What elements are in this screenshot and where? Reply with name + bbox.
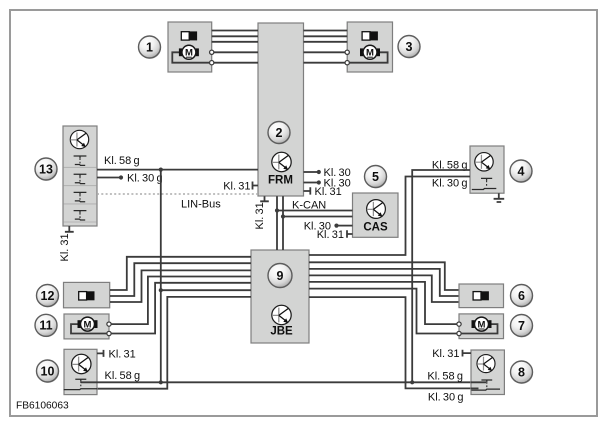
svg-text:JBE: JBE — [270, 326, 293, 338]
control unit FRM (footwell module) — [258, 23, 304, 196]
svg-text:7: 7 — [518, 319, 525, 333]
callout badge 2 — [268, 122, 291, 145]
wire component 12 pin 3 to JBE — [110, 270, 251, 302]
svg-text:4: 4 — [518, 164, 525, 178]
wire FRM to component 3 motor - — [304, 62, 348, 64]
svg-text:1: 1 — [146, 40, 153, 54]
control unit JBE (junction box electronics) — [251, 250, 309, 343]
junction Kl. 30 stub 2 end — [317, 180, 321, 184]
svg-text:2: 2 — [276, 126, 283, 140]
component 4 (lamp unit with control electronics) — [470, 146, 504, 193]
wire JBE to component 8 Kl. 30 g line — [309, 297, 471, 388]
svg-text:11: 11 — [39, 319, 52, 333]
junction Kl. 58 g tap to JBE — [159, 288, 163, 292]
wire component 1 to FRM pin 3 — [212, 41, 258, 43]
wire component 1 to FRM pin 2 — [212, 35, 258, 37]
connector pins component 3 — [345, 50, 349, 65]
wire LIN-Bus (dotted) component 13 to FRM — [97, 193, 258, 195]
svg-text:10: 10 — [41, 364, 55, 378]
svg-text:Kl. 30 g: Kl. 30 g — [432, 178, 468, 190]
svg-text:Kl. 58 g: Kl. 58 g — [105, 370, 141, 382]
junction Kl. 58 g rail tap right — [410, 380, 414, 384]
terminal Kl. 31 (component 8) — [463, 350, 472, 357]
wire motor loop in component 3 — [347, 52, 387, 62]
svg-text:8: 8 — [518, 365, 525, 379]
component 10 (lamp unit with control electronics) — [64, 349, 97, 394]
wire component 1 motor + to FRM — [212, 51, 258, 53]
motor M in component 3 — [360, 45, 380, 59]
wire JBE to component 7 motor + — [309, 282, 459, 324]
svg-text:5: 5 — [372, 170, 379, 184]
wire FRM to component 3 pin 2 — [304, 35, 348, 37]
wire motor loop in component 7 — [459, 324, 498, 333]
wire JBE to component 7 motor - — [309, 289, 459, 334]
wire K-CAN high to CAS — [277, 210, 353, 212]
component 8 (lamp unit with control electronics) — [471, 350, 504, 395]
callout badge 4 — [510, 160, 533, 183]
component 7 (motor unit) — [459, 314, 504, 339]
wire motor loop in component 1 — [172, 52, 211, 62]
svg-text:Kl. 31: Kl. 31 — [223, 181, 250, 193]
callout badge 6 — [511, 285, 534, 308]
wire Kl. 30 stub FRM right 2 — [304, 182, 319, 184]
svg-text:3: 3 — [406, 40, 413, 54]
wire JBE to component 10 lamp line — [97, 297, 251, 389]
junction Kl. 58 g rail tap left — [159, 380, 163, 384]
svg-text:Kl. 30 g: Kl. 30 g — [127, 173, 163, 185]
component 1 (window switch + motor unit) — [168, 22, 212, 72]
svg-text:6: 6 — [518, 289, 525, 303]
terminal Kl. 31 (component 10) — [97, 350, 104, 357]
callout badge 13 — [35, 158, 58, 181]
terminal Kl. 31 (CAS) — [347, 230, 353, 237]
component 11 (motor unit) — [64, 314, 109, 339]
callout badge 8 — [511, 361, 534, 384]
callout badge 11 — [35, 314, 58, 337]
wire JBE to component 6 pin 1 — [309, 262, 459, 290]
wire K-CAN low to CAS — [283, 216, 353, 218]
svg-text:12: 12 — [41, 289, 55, 303]
wire FRM to component 3 pin 3 — [304, 41, 348, 43]
connector pins component 11 — [107, 322, 111, 336]
terminal Kl. 31 below FRM — [260, 196, 269, 201]
svg-text:K-CAN: K-CAN — [292, 199, 326, 211]
terminal Kl. 31 (FRM left) — [253, 182, 259, 190]
callout badge 10 — [37, 360, 60, 383]
svg-text:FRM: FRM — [268, 175, 293, 187]
wire component 11 motor + to JBE — [109, 277, 251, 325]
svg-text:Kl. 58 g: Kl. 58 g — [104, 155, 140, 167]
connector pins component 7 — [457, 322, 461, 336]
junction Kl. 30 stub end (CAS) — [334, 224, 338, 228]
junction K-CAN tap 1 — [275, 208, 279, 212]
callout badge 7 — [511, 315, 534, 338]
wire component 1 motor - to FRM — [212, 62, 258, 64]
wire K-CAN vertical 2 FRM to JBE — [282, 196, 284, 250]
wire Kl. 30 g component 4 to JBE — [309, 177, 470, 256]
svg-text:Kl. 58 g: Kl. 58 g — [427, 370, 463, 382]
wire motor loop in component 11 — [71, 324, 109, 333]
wire component 12 pin 2 to JBE — [110, 263, 251, 296]
callout badge 9 — [268, 264, 293, 289]
wire FRM to component 3 motor + — [304, 51, 348, 53]
svg-text:Kl. 31: Kl. 31 — [109, 348, 136, 360]
component 6 (switch unit) — [459, 284, 504, 308]
wire JBE to component 6 pin 2 — [309, 269, 459, 296]
ground symbol (component 4) — [494, 193, 505, 202]
terminal Kl. 31 (FRM right) — [304, 187, 311, 194]
callout badge 1 — [139, 36, 162, 59]
wire JBE to component 6 pin 3 — [309, 275, 459, 302]
wire Kl. 58 g from component 13 to FRM — [97, 169, 258, 171]
junction Kl. 30 stub 1 end — [317, 170, 321, 174]
connector pins component 1 — [210, 50, 214, 65]
control unit CAS (car access system) — [353, 193, 399, 237]
wire Kl. 58 g vertical distribution — [160, 170, 162, 383]
svg-text:13: 13 — [39, 162, 53, 176]
wire component 11 motor - to JBE — [109, 283, 251, 334]
svg-text:FB6106063: FB6106063 — [16, 400, 69, 411]
component 12 (switch unit) — [64, 282, 110, 307]
wire Kl. 58 g component 4 down to rail — [412, 170, 470, 382]
junction K-CAN tap 2 — [281, 214, 285, 218]
motor M in component 7 — [472, 317, 492, 331]
wire K-CAN vertical 1 FRM to JBE — [276, 196, 278, 250]
svg-text:Kl. 31: Kl. 31 — [315, 186, 342, 198]
svg-text:Kl. 31: Kl. 31 — [432, 348, 459, 360]
wire Kl. 30 stub FRM right 1 — [304, 171, 319, 173]
svg-text:CAS: CAS — [363, 222, 388, 234]
terminal Kl. 31 below component 13 — [65, 226, 74, 232]
svg-text:Kl. 31: Kl. 31 — [254, 202, 266, 229]
component 3 (window switch + motor unit) — [347, 22, 392, 72]
motor M in component 1 — [179, 45, 199, 59]
wire Kl. 58 g branch into JBE — [161, 289, 251, 291]
wire Kl. 58 g rail component 10 to component 8 — [97, 381, 471, 383]
svg-text:9: 9 — [277, 269, 284, 283]
wire Kl. 30 stub at CAS — [337, 225, 353, 227]
callout badge 12 — [37, 285, 60, 308]
callout badge 3 — [398, 36, 421, 59]
wire FRM to component 3 pin 1 — [304, 30, 348, 32]
svg-text:LIN-Bus: LIN-Bus — [181, 198, 221, 210]
wire component 12 pin 1 to JBE — [110, 257, 251, 290]
motor M in component 11 — [78, 317, 98, 331]
wire component 1 to FRM pin 1 — [212, 30, 258, 32]
junction Kl.58g tap at component 13 feed — [159, 168, 163, 172]
junction Kl. 30 g stub end — [119, 175, 123, 179]
svg-text:Kl. 31: Kl. 31 — [59, 233, 71, 261]
svg-text:Kl. 30 g: Kl. 30 g — [428, 391, 464, 403]
callout badge 5 — [365, 166, 388, 189]
component 13 (lamp unit with control electronics) — [63, 126, 97, 226]
wire Kl. 30 g stub at component 13 — [97, 177, 121, 179]
svg-text:Kl. 31: Kl. 31 — [317, 229, 344, 241]
